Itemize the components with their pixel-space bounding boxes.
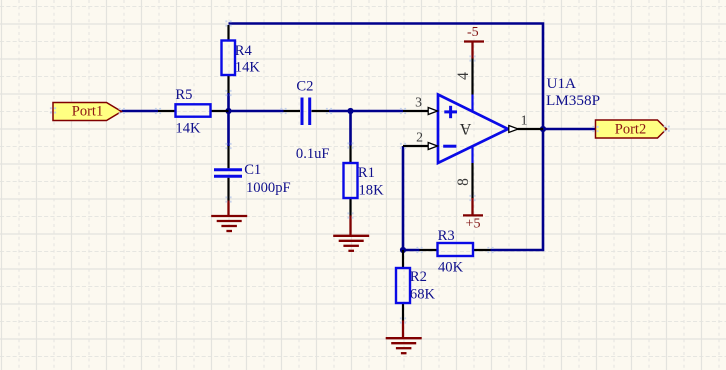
svg-text:U1A: U1A [547, 75, 577, 92]
svg-text:C1: C1 [244, 162, 261, 178]
svg-text:+5: +5 [466, 217, 481, 232]
svg-text:3: 3 [415, 95, 422, 110]
svg-text:1000pF: 1000pF [246, 180, 291, 196]
svg-text:Port1: Port1 [72, 104, 103, 120]
svg-text:-5: -5 [467, 25, 479, 40]
svg-text:R5: R5 [175, 87, 192, 103]
svg-text:14K: 14K [235, 59, 261, 75]
svg-text:LM358P: LM358P [546, 92, 600, 109]
svg-text:14K: 14K [175, 120, 201, 136]
svg-text:R3: R3 [438, 228, 455, 244]
svg-text:C2: C2 [296, 78, 313, 94]
svg-text:A: A [459, 120, 471, 137]
svg-text:Port2: Port2 [615, 121, 646, 137]
svg-text:1: 1 [521, 113, 528, 128]
svg-text:2: 2 [416, 130, 423, 145]
svg-text:40K: 40K [438, 260, 464, 276]
svg-text:8: 8 [455, 178, 472, 186]
svg-text:R4: R4 [235, 43, 253, 59]
svg-text:4: 4 [455, 72, 472, 80]
svg-text:68K: 68K [410, 287, 436, 303]
svg-text:R1: R1 [358, 165, 375, 181]
svg-text:R2: R2 [410, 269, 427, 285]
svg-text:18K: 18K [359, 183, 385, 199]
svg-text:0.1uF: 0.1uF [296, 146, 330, 162]
